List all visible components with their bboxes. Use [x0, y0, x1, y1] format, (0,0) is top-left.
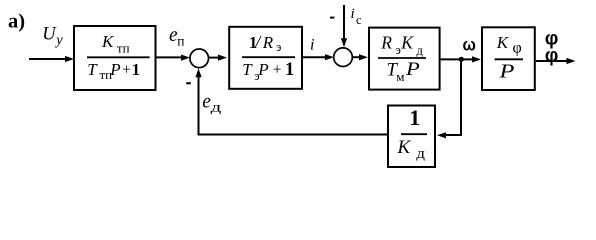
- block W3 ReKd/(Tm P): [369, 28, 440, 90]
- svg-text:T: T: [87, 60, 98, 79]
- svg-text:э: э: [396, 43, 401, 57]
- svg-text:K: K: [496, 33, 510, 52]
- svg-text:P: P: [405, 59, 420, 80]
- wire W1 to S1: [157, 56, 184, 58]
- svg-text:U: U: [42, 25, 57, 45]
- svg-text:T: T: [242, 60, 253, 79]
- svg-text:д: д: [211, 99, 222, 115]
- svg-text:P: P: [109, 60, 120, 79]
- svg-text:у: у: [54, 33, 63, 49]
- svg-text:д: д: [417, 44, 424, 58]
- svg-text:1: 1: [132, 60, 140, 79]
- node Uy label: [42, 25, 63, 49]
- wire ic input vertical: [343, 5, 345, 40]
- svg-text:φ: φ: [513, 40, 522, 57]
- svg-text:д: д: [416, 146, 425, 162]
- wire W2 to S2: [303, 56, 327, 58]
- node e_d label: [202, 91, 221, 114]
- svg-text:φ: φ: [545, 45, 559, 66]
- svg-text:1: 1: [285, 60, 294, 80]
- svg-text:с: с: [356, 13, 362, 27]
- svg-text:+: +: [122, 61, 131, 78]
- svg-text:м: м: [396, 69, 404, 84]
- minus sign at sum2: [330, 17, 334, 19]
- svg-text:P: P: [498, 60, 514, 82]
- block W1 transmitter Ktp/(Ttp P+1): [74, 26, 156, 90]
- minus sign at S1: [186, 82, 191, 84]
- wire feedback right horizontal into W5: [444, 134, 462, 136]
- wire S2 to W3: [353, 56, 361, 58]
- svg-text:тп: тп: [117, 40, 130, 55]
- wire input: [29, 58, 66, 60]
- wire feedback long horizontal: [198, 134, 387, 136]
- summing junction S1: [190, 49, 209, 68]
- wire W3 to W4: [441, 58, 473, 60]
- block W5 1/Kd: [388, 105, 435, 167]
- svg-text:K: K: [101, 32, 115, 51]
- svg-text:K: K: [400, 32, 414, 52]
- summing junction S2: [334, 48, 353, 67]
- node omega junction dot: [459, 57, 464, 62]
- svg-text:э: э: [276, 40, 281, 54]
- svg-text:ω: ω: [463, 34, 476, 54]
- wire feedback from node down: [460, 59, 462, 135]
- svg-text:K: K: [397, 137, 412, 158]
- svg-text:R: R: [262, 33, 274, 52]
- svg-text:а): а): [8, 11, 25, 33]
- wire feedback left vertical to S1: [198, 74, 200, 136]
- svg-text:п: п: [177, 33, 184, 48]
- block W4 Kf/P: [482, 27, 535, 90]
- wire output: [536, 60, 568, 62]
- svg-text:P: P: [257, 60, 268, 79]
- svg-text:+: +: [273, 62, 282, 79]
- block W2 1/Re over (Te P+1): [229, 27, 302, 89]
- node e_p label: [169, 25, 184, 48]
- svg-text:i: i: [351, 6, 355, 22]
- svg-text:1: 1: [409, 105, 420, 130]
- svg-text:i: i: [310, 37, 314, 54]
- node ic label: [351, 6, 363, 27]
- svg-text:R: R: [380, 32, 392, 52]
- wire S1 to W2: [209, 57, 221, 59]
- node omega label: [463, 34, 476, 54]
